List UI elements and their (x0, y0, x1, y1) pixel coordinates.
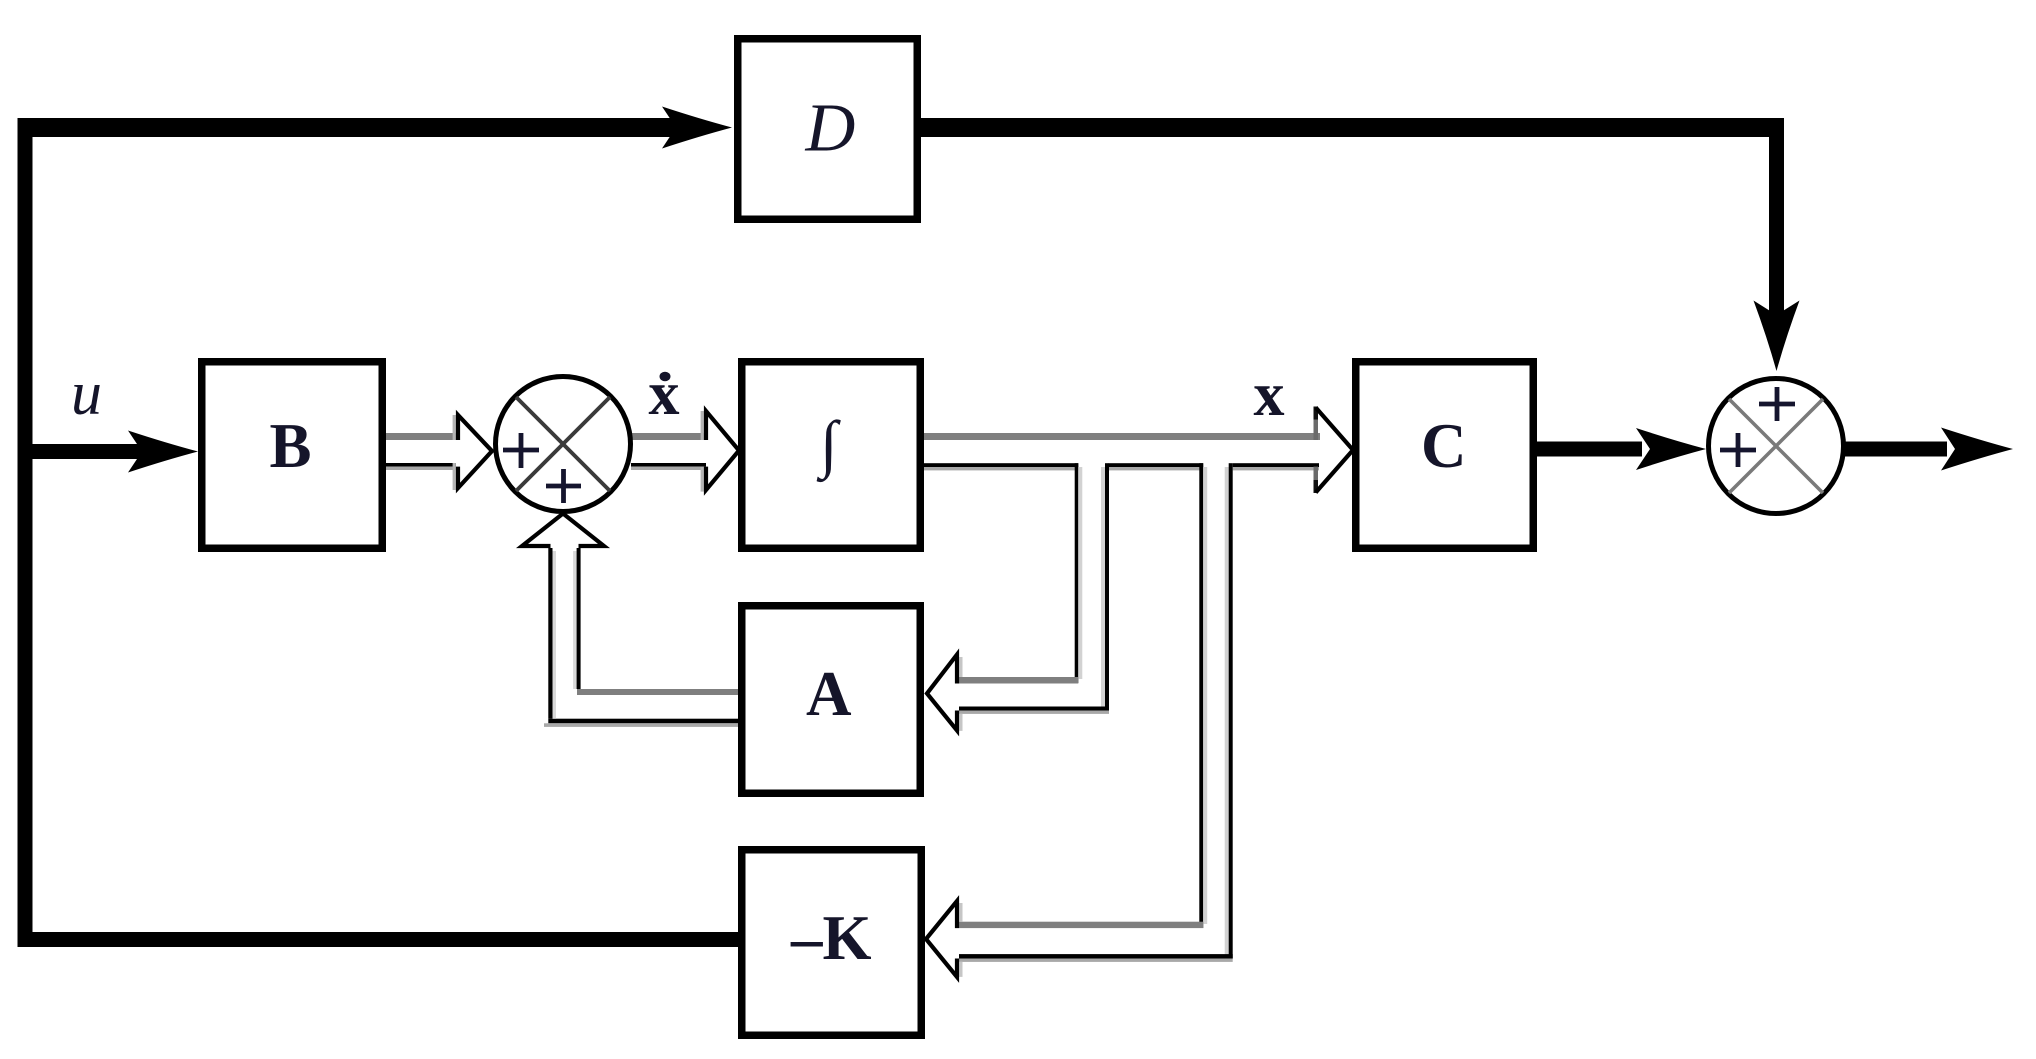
svg-text:u: u (71, 360, 102, 428)
block -K (742, 850, 922, 1036)
hollow wire branch down to -K: left edge (1199, 463, 1203, 928)
svg-text:A: A (806, 659, 852, 729)
arrow into D (662, 107, 732, 149)
hollow wire branch down to A: right edge (1101, 467, 1105, 711)
wire C output (1537, 442, 1642, 457)
summer S1 plus bottom (546, 484, 581, 489)
hollow arrowhead into -K (959, 903, 962, 922)
summer S2 plus left (1720, 448, 1756, 453)
hollow wire summer S1 to integrator: gray top edge (631, 433, 706, 440)
hollow wire into A: gray top edge (959, 677, 1078, 684)
hollow wire x bottom edge segment 1 (924, 463, 1078, 467)
hollow arrowhead up into summer S1 (522, 514, 604, 547)
arrow down into summer S2 (1754, 301, 1800, 372)
hollow wire into -K: gray top edge (959, 922, 1203, 928)
hollow arrowhead into integrator (701, 411, 704, 440)
hollow wire B to summer S1: bottom edge (386, 463, 456, 467)
svg-text:x: x (1254, 361, 1285, 429)
svg-text:C: C (1421, 411, 1467, 481)
hollow wire x bottom edge segment 3 (1233, 463, 1319, 467)
hollow wire B to summer S1: gray top edge (386, 433, 456, 440)
hollow wire A feedback vertical: left edge (548, 548, 552, 719)
hollow wire summer S1 to integrator: bottom edge (631, 463, 706, 467)
hollow wire A feedback vertical: right edge (573, 551, 577, 689)
svg-text:∫: ∫ (816, 408, 841, 483)
summer S1 plus left (503, 448, 539, 453)
block B (202, 362, 383, 549)
block C (1356, 362, 1534, 549)
summer S1 circle (496, 377, 631, 512)
arrow output y (1941, 428, 2013, 471)
block integrator (742, 362, 921, 549)
wire D output horizontal (921, 118, 1784, 137)
block D (738, 39, 918, 220)
wire D output vertical drop (1769, 118, 1784, 320)
hollow wire x: integrator to C gray top edge (924, 433, 1320, 440)
hollow arrowhead into C (1314, 419, 1319, 440)
wire u to D: top horizontal thick line (18, 118, 680, 137)
hollow wire x bottom edge segment 2 (1109, 463, 1204, 467)
hollow wire into A: bottom edge (959, 707, 1109, 711)
svg-text:B: B (270, 411, 312, 481)
svg-text:x: x (649, 360, 680, 428)
wire u input horizontal (32, 444, 145, 459)
wire y output from summer S2 (1844, 442, 1947, 457)
svg-text:–K: –K (790, 903, 872, 973)
hollow wire A output: bottom edge (548, 719, 738, 724)
summer S1 X diagonals (516, 397, 610, 491)
summer S2 circle (1709, 379, 1844, 514)
hollow wire branch down to A: left edge (1075, 463, 1079, 683)
block A (742, 606, 921, 794)
arrow into B (128, 431, 198, 473)
wire u feed: left vertical thick bus (18, 118, 33, 947)
hollow arrowhead into A (959, 657, 962, 677)
hollow arrowhead into summer S1 (453, 415, 456, 440)
wire -K output: bottom horizontal thick line (18, 932, 739, 947)
hollow wire into -K: bottom edge (959, 954, 1233, 958)
svg-text:D: D (805, 90, 856, 166)
arrow into summer S2 from C (1636, 428, 1706, 470)
hollow wire A output: gray top edge (577, 689, 738, 695)
summer S2 plus top (1759, 402, 1795, 407)
summer S2 X diagonals (1729, 399, 1823, 493)
hollow wire branch down to -K: right edge (1225, 467, 1229, 959)
